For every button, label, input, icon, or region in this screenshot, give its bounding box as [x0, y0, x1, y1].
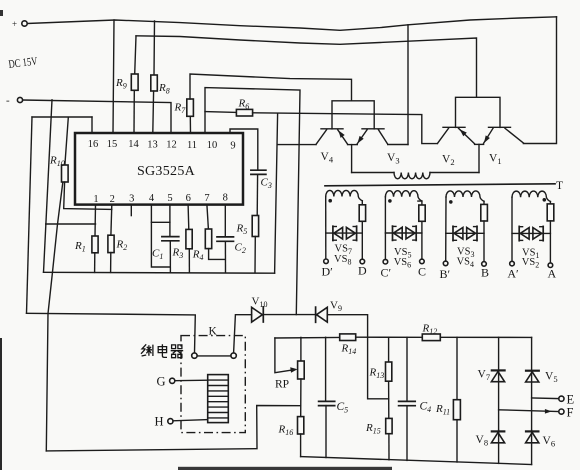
thyristor pair VS7 VS8 — [326, 226, 363, 266]
svg-text:2: 2 — [110, 194, 115, 205]
svg-text:14: 14 — [128, 139, 139, 150]
secondary winding B group — [446, 191, 488, 262]
wire control line to R12 — [356, 336, 423, 338]
svg-text:1: 1 — [93, 194, 98, 205]
svg-text:13: 13 — [147, 139, 158, 150]
capacitor C5 — [319, 337, 349, 457]
node A' terminal — [507, 261, 519, 280]
resistor R16 — [278, 417, 304, 457]
svg-text:RP: RP — [275, 379, 289, 391]
secondary winding D group — [326, 190, 366, 259]
wire R7 top to V4/V3 base box — [190, 74, 352, 101]
secondary winding C group — [385, 191, 425, 260]
svg-text:7: 7 — [204, 193, 209, 204]
resistor R1 — [74, 205, 98, 273]
svg-text:A: A — [548, 267, 557, 281]
node D terminal — [358, 259, 367, 277]
resistor R13 — [369, 337, 392, 418]
wire V10 cathode to V9 — [264, 314, 315, 316]
svg-text:5: 5 — [167, 193, 172, 204]
pin 3 stub — [130, 205, 132, 216]
node A terminal — [548, 263, 557, 281]
resistor R6 — [205, 98, 253, 117]
diode V5 — [525, 337, 558, 430]
node H terminal — [155, 415, 208, 429]
wire pin9 elbow — [230, 129, 258, 170]
relay coil — [208, 375, 229, 423]
resistor R14 — [340, 334, 357, 356]
svg-text:E: E — [567, 393, 575, 407]
resistor R5 — [236, 216, 259, 273]
label relay chinese — [141, 344, 183, 357]
wire C: long left vertical to bottom rail — [46, 118, 68, 451]
wire control line to bridge — [440, 336, 531, 338]
svg-text:D′: D′ — [322, 265, 334, 279]
wire pin1 to ground branch — [46, 223, 96, 225]
node B terminal — [481, 262, 489, 280]
capacitor C3 — [251, 170, 272, 215]
wire right contact to V10 anode — [234, 315, 252, 353]
svg-text:C′: C′ — [381, 266, 392, 280]
resistor R8 — [151, 21, 170, 133]
wire +rail right drop to V1 collector — [523, 17, 556, 144]
svg-text:3: 3 — [129, 194, 134, 205]
diode V9 — [316, 300, 342, 323]
capacitor C4 — [399, 337, 432, 460]
wire A: Vref line down to relay line — [27, 117, 33, 313]
diode V10 — [252, 296, 268, 323]
diode V6 — [525, 430, 555, 464]
svg-text:B: B — [481, 266, 489, 280]
svg-text:4: 4 — [149, 193, 155, 204]
wire pin4 loop to C1 bottom — [151, 222, 170, 267]
node C terminal — [418, 259, 426, 278]
svg-text:H: H — [155, 415, 164, 429]
wire pin15 to +rail — [113, 20, 114, 133]
wire drive line from R9 top to V2/V1 base box — [136, 36, 477, 98]
svg-text:8: 8 — [223, 193, 228, 204]
transformer T primary winding — [352, 173, 479, 179]
wire bottom-right rail — [301, 457, 532, 465]
thyristor pair VS5 VS6 — [385, 226, 422, 269]
svg-text:K: K — [209, 326, 218, 338]
wire pin16 drop — [91, 117, 93, 133]
resistor R12 — [422, 323, 441, 341]
wire relay feed line left — [27, 313, 196, 353]
resistor R11 — [435, 337, 460, 462]
scan artifacts — [0, 10, 3, 16]
node G terminal — [157, 375, 208, 389]
node F terminal — [499, 406, 574, 420]
relay contact K switch — [192, 353, 237, 358]
wire +15V rail top — [27, 17, 556, 31]
secondary winding A group — [512, 191, 554, 263]
resistor R7 — [174, 99, 194, 133]
wire V2/V1 emitter node down to primary — [475, 143, 484, 145]
terminal + (DC supply positive) — [12, 19, 27, 29]
ground bus under IC — [44, 271, 275, 274]
transistor V2 base box with V1 — [456, 97, 501, 127]
svg-text:-: - — [6, 95, 10, 107]
svg-text:C: C — [418, 265, 426, 279]
svg-text:T: T — [556, 180, 563, 192]
wire R6 right to V2 collector — [253, 113, 438, 144]
wire V4 collector stub — [277, 144, 316, 146]
transistor V4 base box with V3 — [332, 101, 374, 129]
transistor V4 — [316, 129, 348, 165]
transistor V1 — [484, 127, 524, 166]
wire control line horizontal — [275, 336, 340, 339]
svg-text:9: 9 — [230, 140, 235, 151]
svg-text:F: F — [567, 406, 574, 420]
svg-text:+: + — [12, 19, 17, 29]
diode V7 — [478, 337, 506, 430]
resistor R15 — [365, 418, 392, 459]
node D' terminal — [322, 259, 334, 279]
op-amp U1 IC SG3525A — [75, 133, 243, 205]
wire pin16/Vref horizontal — [32, 116, 92, 118]
potentiometer RP — [275, 337, 304, 416]
resistor R10 — [49, 155, 112, 210]
svg-text:SG3525A: SG3525A — [137, 164, 196, 179]
svg-text:B′: B′ — [440, 267, 451, 281]
thyristor pair VS3 VS4 — [446, 226, 484, 269]
resistor R4 — [192, 205, 226, 262]
node C' terminal — [381, 259, 392, 279]
wire V3 collector to +rail — [407, 25, 409, 145]
wire V9 anode down to R13 bottom node — [327, 315, 388, 399]
svg-text:D: D — [358, 264, 367, 278]
wire bottom-left rail — [46, 406, 300, 451]
capacitor C1 — [152, 205, 179, 273]
wire B: -rail down to ground bus — [44, 100, 53, 272]
terminal - (DC supply negative) — [6, 95, 23, 107]
node B' terminal — [440, 261, 451, 281]
resistor R2 — [108, 205, 127, 273]
wire -rail to pin12 — [23, 100, 171, 133]
relay box dash-dot — [181, 336, 245, 433]
svg-text:12: 12 — [166, 140, 177, 151]
transistor V2 — [438, 127, 475, 167]
resistor R3 — [172, 205, 193, 273]
thyristor pair VS1 VS2 — [512, 226, 550, 269]
svg-text:6: 6 — [186, 193, 191, 204]
svg-text:16: 16 — [88, 139, 99, 150]
wire junction column to bus (V4 collector branch) — [275, 114, 278, 273]
svg-text:A′: A′ — [507, 267, 519, 281]
diode V8 — [476, 430, 506, 463]
resistor R9 — [115, 36, 138, 133]
svg-text:G: G — [157, 375, 166, 389]
capacitor C2 — [217, 205, 246, 273]
svg-text:11: 11 — [187, 140, 197, 151]
wire pin10 up over and down to V10/V9 node — [205, 88, 300, 315]
wire pin4 to C1 top — [151, 205, 170, 223]
svg-text:15: 15 — [107, 139, 118, 150]
wire V4/V3 emitter node down to primary — [348, 144, 358, 146]
transistor V3 — [357, 129, 408, 166]
transformer core line — [325, 184, 555, 186]
svg-text:10: 10 — [207, 140, 218, 151]
node E terminal — [532, 393, 575, 407]
